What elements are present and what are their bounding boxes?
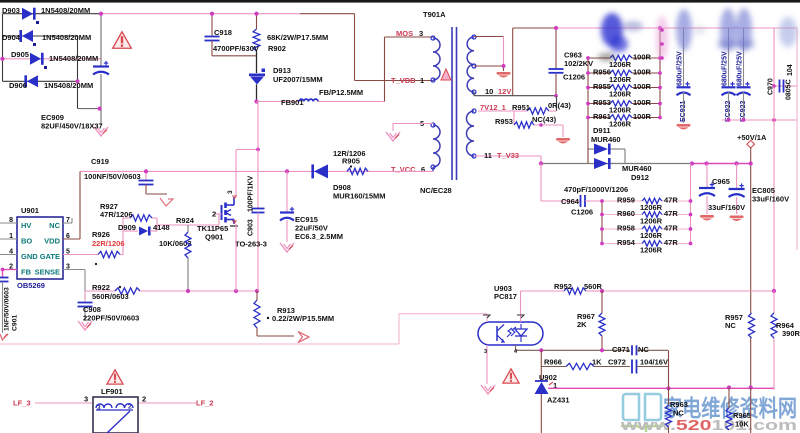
- svg-text:2: 2: [212, 210, 216, 219]
- svg-text:U901: U901: [21, 206, 39, 215]
- svg-text:R922: R922: [92, 283, 110, 292]
- svg-text:R958: R958: [617, 224, 635, 233]
- svg-text:1N5408/20MM: 1N5408/20MM: [49, 54, 98, 63]
- svg-text:3: 3: [484, 349, 487, 355]
- svg-text:2K: 2K: [577, 320, 587, 329]
- svg-text:R926: R926: [92, 230, 110, 239]
- svg-text:1N5408/20MM: 1N5408/20MM: [44, 81, 93, 90]
- svg-text:D911: D911: [593, 126, 611, 135]
- svg-text:1206R: 1206R: [609, 120, 632, 129]
- svg-text:GND: GND: [21, 252, 38, 261]
- svg-text:NC(43): NC(43): [532, 115, 557, 124]
- svg-text:4700PF/630V: 4700PF/630V: [213, 44, 259, 53]
- svg-text:10K: 10K: [735, 420, 749, 429]
- svg-text:3: 3: [227, 190, 234, 194]
- svg-text:C901: C901: [12, 315, 19, 331]
- svg-text:T_VCC: T_VCC: [391, 165, 416, 174]
- svg-text:EC6.3_2.5MM: EC6.3_2.5MM: [295, 232, 343, 241]
- svg-text:104: 104: [787, 64, 794, 76]
- svg-text:100R: 100R: [633, 68, 652, 77]
- svg-text:FB901: FB901: [281, 98, 304, 107]
- svg-text:C971: C971: [612, 345, 630, 354]
- svg-text:D906: D906: [9, 81, 27, 90]
- svg-text:LF901: LF901: [101, 387, 123, 396]
- svg-text:R951: R951: [512, 103, 530, 112]
- svg-text:C903: C903: [248, 219, 255, 236]
- svg-text:R954: R954: [617, 238, 636, 247]
- svg-text:47R: 47R: [664, 224, 678, 233]
- svg-text:22R/1206: 22R/1206: [92, 239, 125, 248]
- svg-text:HV: HV: [21, 221, 31, 230]
- svg-text:6: 6: [421, 165, 425, 174]
- svg-text:LF_3: LF_3: [13, 399, 31, 408]
- svg-text:680uF/25V: 680uF/25V: [677, 51, 684, 86]
- svg-text:C965: C965: [712, 177, 730, 186]
- svg-text:47R: 47R: [664, 196, 678, 205]
- svg-text:NC: NC: [638, 345, 649, 354]
- svg-text:Q901: Q901: [205, 233, 223, 242]
- svg-text:NC: NC: [725, 321, 736, 330]
- svg-text:C919: C919: [91, 157, 109, 166]
- svg-text:+50V/1A: +50V/1A: [737, 133, 767, 142]
- svg-text:11: 11: [484, 151, 492, 160]
- svg-text:3: 3: [419, 29, 423, 38]
- svg-text:10: 10: [485, 87, 493, 96]
- svg-text:82UF/450V/18X37: 82UF/450V/18X37: [41, 122, 103, 131]
- svg-text:104/16V: 104/16V: [640, 358, 668, 367]
- svg-text:47R/1206: 47R/1206: [100, 210, 133, 219]
- svg-text:47R: 47R: [664, 209, 678, 218]
- svg-text:33uF/160V: 33uF/160V: [752, 195, 789, 204]
- svg-text:C1206: C1206: [571, 208, 593, 217]
- svg-text:680uF/25V: 680uF/25V: [722, 51, 729, 86]
- svg-text:www.520101.com: www.520101.com: [620, 418, 797, 433]
- svg-text:102/2KV: 102/2KV: [564, 59, 593, 68]
- svg-text:7V12_1: 7V12_1: [480, 103, 506, 112]
- svg-text:R953: R953: [495, 117, 513, 126]
- svg-text:220PF/50V/0603: 220PF/50V/0603: [83, 314, 139, 323]
- svg-text:D903: D903: [2, 6, 20, 15]
- svg-text:100R: 100R: [633, 98, 652, 107]
- svg-text:C918: C918: [214, 28, 232, 37]
- svg-text:R902: R902: [268, 44, 286, 53]
- svg-text:BO: BO: [21, 237, 32, 246]
- svg-text:100R: 100R: [633, 112, 652, 121]
- svg-text:3: 3: [84, 395, 88, 404]
- svg-text:D913: D913: [273, 66, 291, 75]
- svg-text:4148: 4148: [153, 223, 170, 232]
- svg-text:1206R: 1206R: [640, 231, 663, 240]
- svg-text:MUR460: MUR460: [622, 164, 652, 173]
- svg-text:100PF/1KV: 100PF/1KV: [248, 175, 255, 212]
- svg-text:0R(43): 0R(43): [548, 101, 571, 110]
- svg-text:470pF/1000V/1206: 470pF/1000V/1206: [564, 185, 628, 194]
- svg-text:TO-263-3: TO-263-3: [235, 240, 267, 249]
- svg-text:VDD: VDD: [44, 237, 60, 246]
- svg-text:NC: NC: [49, 221, 60, 230]
- svg-text:R966: R966: [544, 358, 562, 367]
- svg-text:R924: R924: [176, 216, 195, 225]
- svg-text:C1206: C1206: [563, 73, 585, 82]
- svg-text:1206R: 1206R: [609, 60, 632, 69]
- svg-text:D909: D909: [118, 223, 136, 232]
- svg-text:68K/2W/P17.5MM: 68K/2W/P17.5MM: [267, 33, 328, 42]
- svg-text:33uF/160V: 33uF/160V: [708, 203, 745, 212]
- svg-text:GATE: GATE: [40, 252, 60, 261]
- svg-text:UF2007/15MM: UF2007/15MM: [273, 75, 323, 84]
- svg-text:OB5269: OB5269: [17, 281, 45, 290]
- svg-text:MUR460: MUR460: [591, 135, 621, 144]
- svg-text:AZ431: AZ431: [547, 396, 570, 405]
- svg-text:SENSE: SENSE: [35, 268, 60, 277]
- svg-text:560R: 560R: [584, 282, 603, 291]
- svg-text:2: 2: [142, 395, 146, 404]
- svg-text:1N5408/20MM: 1N5408/20MM: [42, 33, 91, 42]
- svg-text:100R: 100R: [633, 82, 652, 91]
- svg-text:D904: D904: [2, 33, 21, 42]
- svg-text:1206R: 1206R: [609, 90, 632, 99]
- svg-text:1206R: 1206R: [609, 75, 632, 84]
- svg-text:1N5408/20MM: 1N5408/20MM: [41, 6, 90, 15]
- svg-text:D905: D905: [11, 50, 29, 59]
- svg-text:FB: FB: [21, 268, 32, 277]
- svg-text:T901A: T901A: [423, 10, 446, 19]
- svg-text:1: 1: [420, 76, 424, 85]
- svg-text:LF_2: LF_2: [196, 399, 214, 408]
- svg-text:MOS: MOS: [396, 29, 413, 38]
- svg-text:47R: 47R: [664, 238, 678, 247]
- svg-text:C964: C964: [561, 197, 580, 206]
- svg-text:1206R: 1206R: [640, 246, 663, 255]
- svg-text:T_VDD: T_VDD: [391, 76, 416, 85]
- svg-text:R960: R960: [617, 209, 635, 218]
- svg-text:0.22/2W/P15.5MM: 0.22/2W/P15.5MM: [272, 314, 334, 323]
- svg-text:1206R: 1206R: [609, 106, 632, 115]
- svg-text:R959: R959: [617, 196, 635, 205]
- svg-text:R905: R905: [342, 157, 360, 166]
- svg-text:100NF/50V/0603: 100NF/50V/0603: [84, 172, 141, 181]
- svg-text:MUR160/15MM: MUR160/15MM: [333, 192, 386, 201]
- svg-text:C972: C972: [608, 358, 626, 367]
- svg-text:1NF/50V/0603: 1NF/50V/0603: [4, 287, 11, 331]
- svg-text:FB/P12.5MM: FB/P12.5MM: [319, 88, 363, 97]
- svg-text:PC817: PC817: [494, 292, 517, 301]
- svg-text:NC: NC: [673, 409, 684, 418]
- svg-text:0805C: 0805C: [786, 79, 793, 100]
- svg-text:1K: 1K: [592, 358, 602, 367]
- svg-text:D912: D912: [631, 173, 649, 182]
- svg-text:560R/0603: 560R/0603: [92, 292, 129, 301]
- svg-text:100R: 100R: [633, 53, 652, 62]
- svg-text:12V: 12V: [498, 87, 511, 96]
- svg-text:390R: 390R: [782, 329, 800, 338]
- svg-text:R952: R952: [554, 282, 572, 291]
- svg-text:1206R: 1206R: [640, 217, 663, 226]
- svg-text:T_V33: T_V33: [497, 151, 519, 160]
- svg-text:680uF/25V: 680uF/25V: [737, 51, 744, 86]
- svg-text:NC/EC28: NC/EC28: [420, 186, 452, 195]
